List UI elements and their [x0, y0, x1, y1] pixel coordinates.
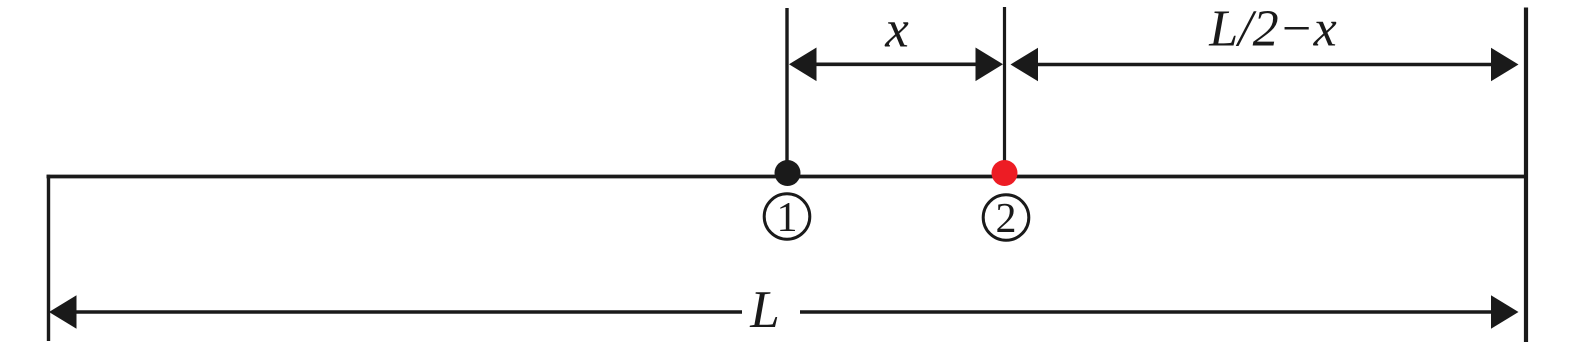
dimension arrow L/2-x (double-headed) — [1011, 48, 1519, 82]
svg-text:L: L — [749, 281, 779, 339]
left end vertical wire — [47, 175, 50, 341]
svg-text:L/2−x: L/2−x — [1208, 1, 1337, 58]
rod (horizontal bar) — [47, 175, 1529, 179]
vertical reference line at point 1 — [785, 8, 788, 173]
dimension arrow L (double-headed, gap for label) — [49, 295, 1519, 329]
point 1 dot (black) — [775, 160, 801, 186]
circled label 1 — [764, 194, 810, 241]
point 2 dot (red) — [992, 160, 1018, 186]
circled label 2 — [983, 195, 1029, 242]
dimension arrow x (double-headed) — [789, 48, 1003, 82]
svg-text:2: 2 — [996, 196, 1017, 242]
right end vertical wire — [1524, 8, 1528, 343]
svg-text:1: 1 — [777, 195, 798, 241]
svg-text:x: x — [884, 1, 909, 59]
vertical reference line at point 2 — [1003, 7, 1006, 173]
